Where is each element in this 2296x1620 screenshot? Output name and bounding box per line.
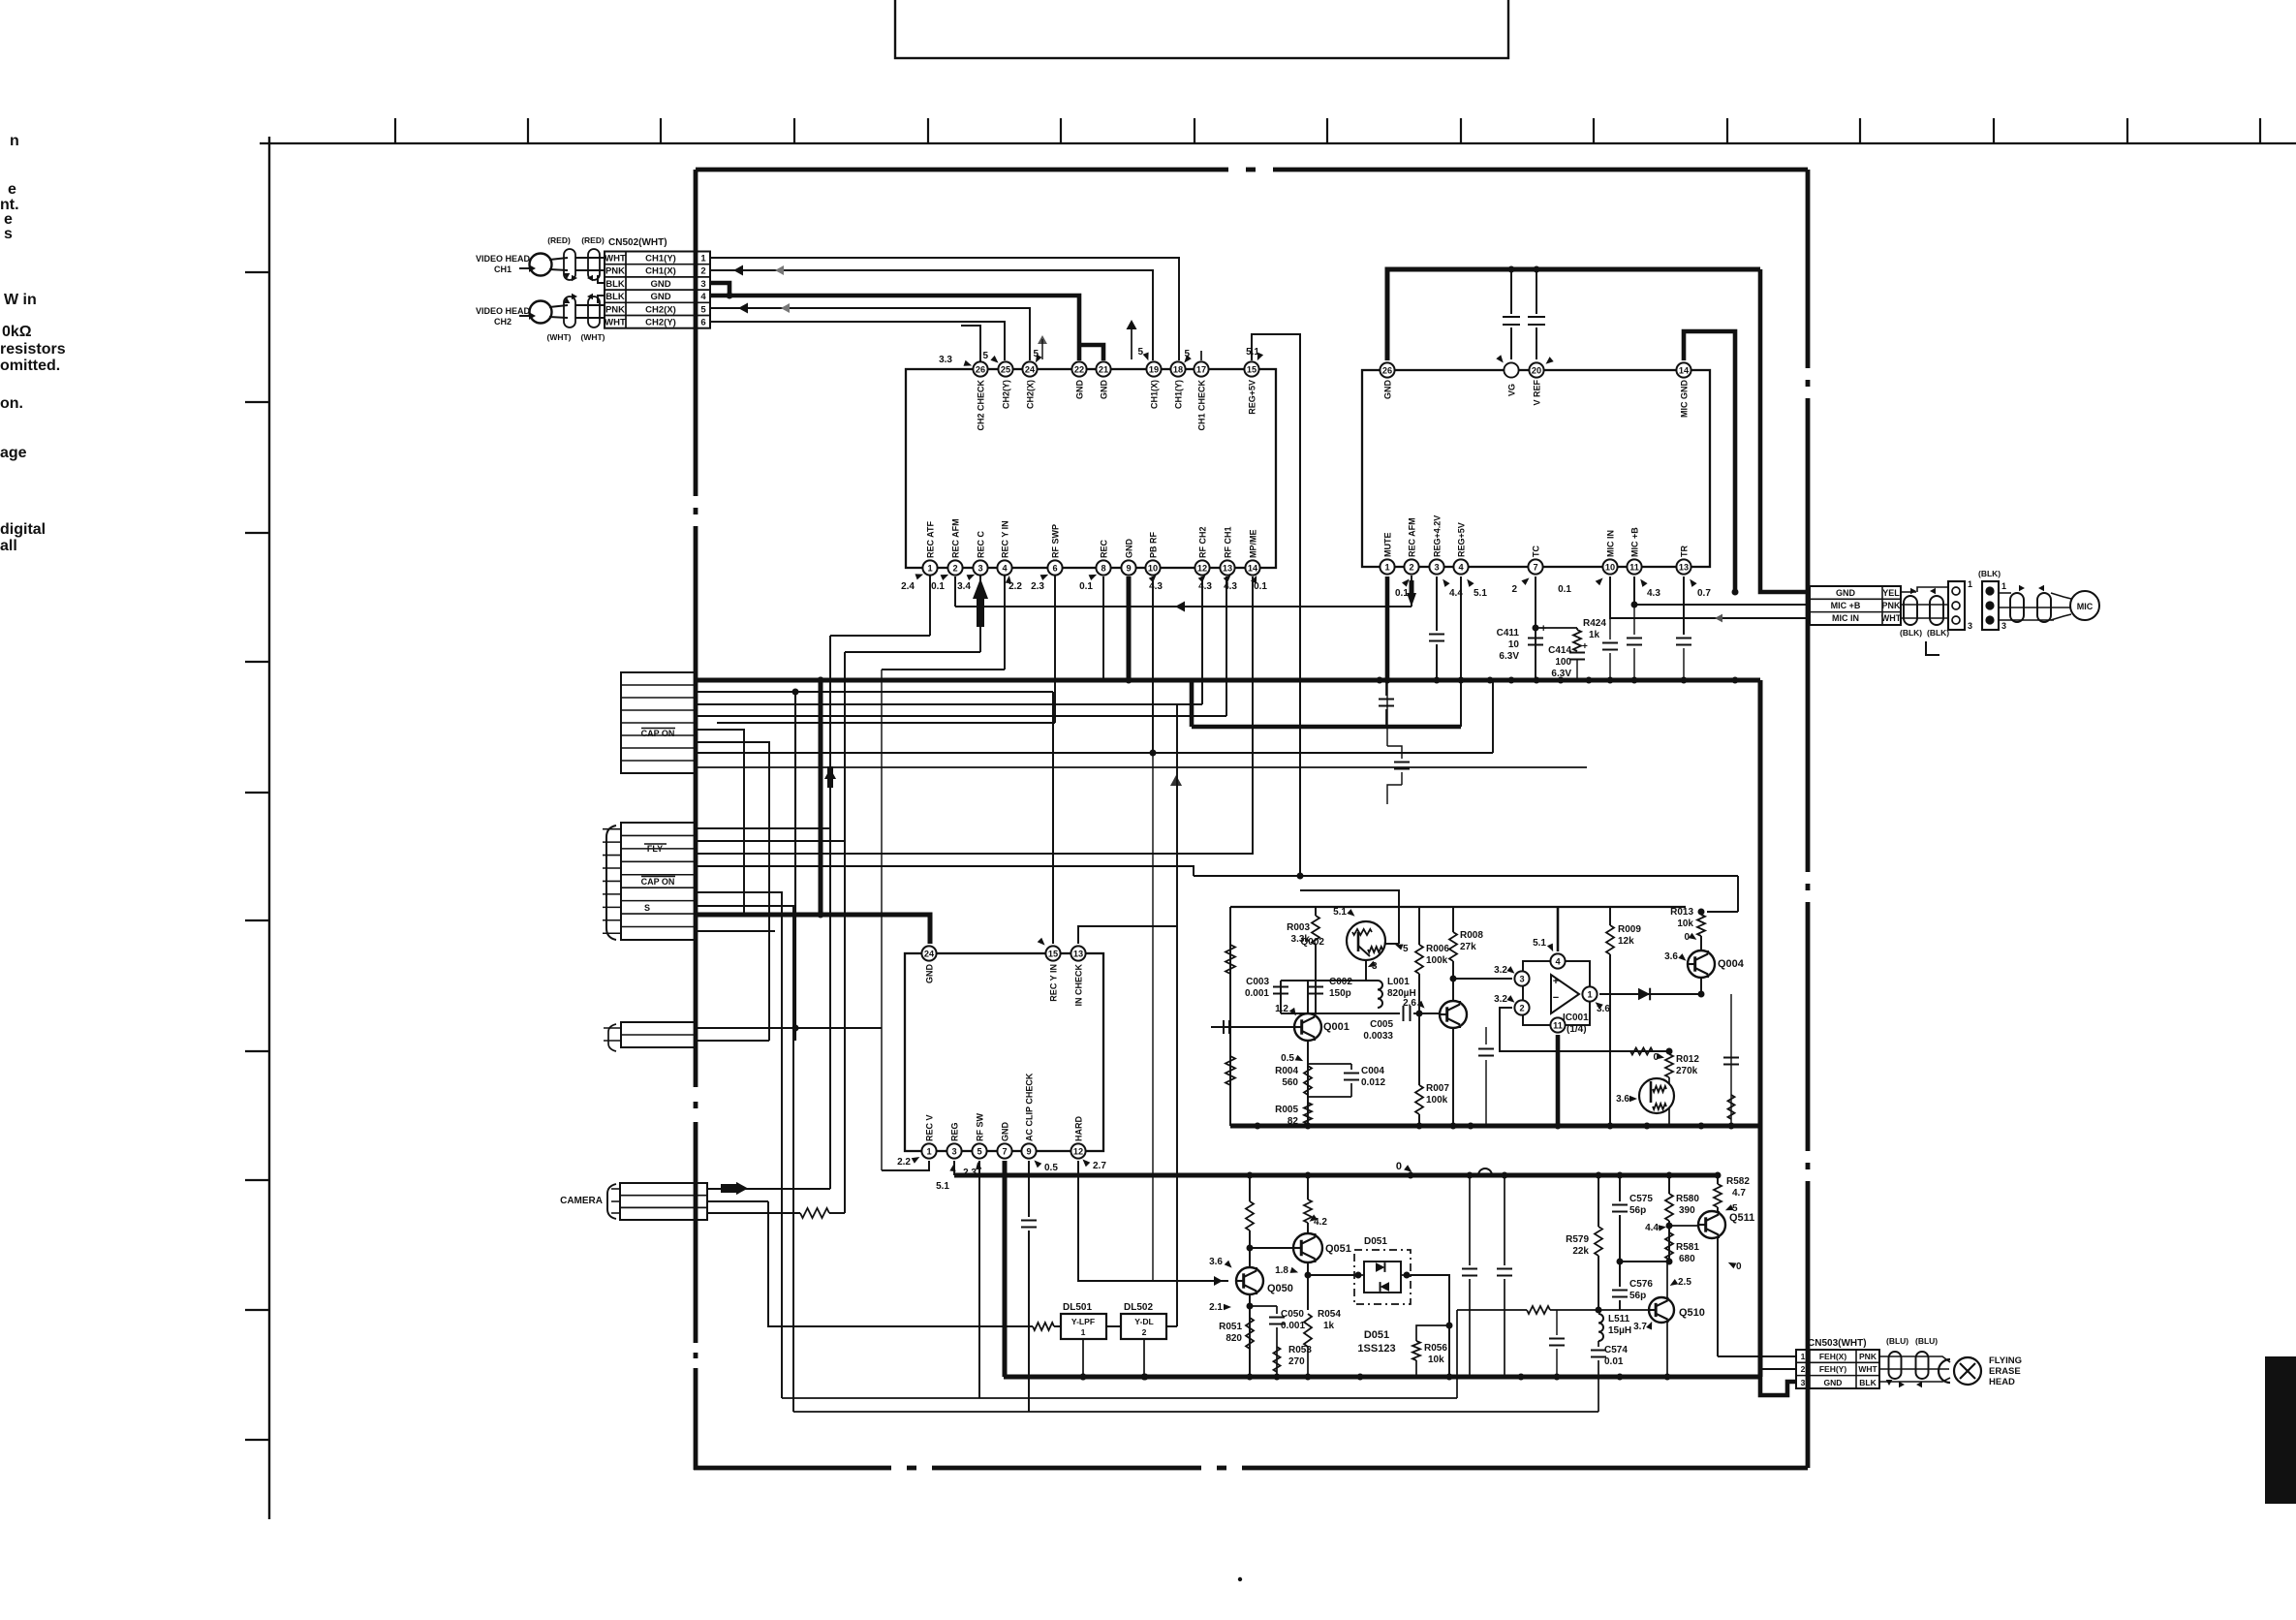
Q511 bbox=[1698, 1211, 1725, 1238]
svg-text:2.3: 2.3 bbox=[1031, 581, 1044, 592]
svg-text:age: age bbox=[0, 445, 27, 461]
up arrow on wire bbox=[824, 768, 836, 779]
svg-text:CAP ON: CAP ON bbox=[641, 729, 675, 738]
svg-text:WHT: WHT bbox=[605, 318, 626, 328]
IC3 pin 5 bbox=[972, 1143, 986, 1158]
svg-text:MIC: MIC bbox=[2077, 602, 2094, 611]
svg-text:1k: 1k bbox=[1323, 1321, 1335, 1331]
IC3 pin1 wire bbox=[882, 1161, 929, 1170]
svg-text:10: 10 bbox=[1148, 563, 1158, 573]
svg-text:1: 1 bbox=[927, 563, 932, 573]
svg-text:1: 1 bbox=[1384, 562, 1389, 572]
IC2 pin3 drop with cap bbox=[1436, 576, 1438, 631]
IC1 pin 25 bbox=[998, 361, 1012, 376]
REG rail thick bbox=[954, 1173, 1718, 1178]
IC2 pin7 chain C411 R424 bbox=[1535, 576, 1536, 680]
svg-text:Q004: Q004 bbox=[1718, 958, 1745, 970]
svg-text:FLY: FLY bbox=[647, 844, 663, 854]
svg-text:3: 3 bbox=[2001, 621, 2006, 631]
svg-text:omitted.: omitted. bbox=[0, 358, 60, 374]
thick drop to MIC table bbox=[1760, 269, 1810, 592]
svg-text:CH2 CHECK: CH2 CHECK bbox=[977, 380, 986, 431]
svg-text:5.1: 5.1 bbox=[1333, 907, 1347, 918]
svg-text:GND: GND bbox=[1075, 380, 1085, 400]
svg-text:RF CH1: RF CH1 bbox=[1224, 526, 1233, 558]
svg-text:(BLK): (BLK) bbox=[1900, 628, 1922, 638]
svg-text:FEH(X): FEH(X) bbox=[1819, 1352, 1847, 1361]
board border bottom bbox=[694, 1466, 891, 1471]
svg-text:6: 6 bbox=[1052, 563, 1057, 573]
IC1 pin 1 bbox=[922, 560, 937, 575]
svg-text:4: 4 bbox=[700, 292, 706, 302]
svg-text:0: 0 bbox=[1736, 1262, 1742, 1272]
svg-text:GND: GND bbox=[1125, 539, 1134, 559]
long return line B bbox=[793, 1411, 1598, 1413]
svg-text:REC: REC bbox=[1100, 539, 1109, 558]
analog top rail bbox=[1230, 906, 1686, 908]
IC1 pin 9 bbox=[1121, 560, 1135, 575]
svg-text:BLK: BLK bbox=[1859, 1378, 1877, 1387]
IC1 pin 26 bbox=[973, 361, 987, 376]
transistor Q050 bbox=[1236, 1267, 1263, 1294]
board border top bbox=[696, 168, 1228, 172]
svg-text:4.3: 4.3 bbox=[1198, 581, 1212, 592]
svg-text:4: 4 bbox=[1458, 562, 1464, 572]
bottom GND rail thick bbox=[1004, 1375, 1760, 1380]
svg-text:1k: 1k bbox=[1589, 630, 1600, 640]
IC1 pin2 drop bbox=[954, 576, 956, 607]
svg-text:C576: C576 bbox=[1629, 1279, 1653, 1290]
svg-text:0.001: 0.001 bbox=[1245, 988, 1269, 999]
svg-text:6.3V: 6.3V bbox=[1499, 651, 1519, 662]
top ruler line bbox=[260, 142, 2296, 144]
svg-text:2: 2 bbox=[1409, 562, 1413, 572]
svg-text:3.2: 3.2 bbox=[1494, 994, 1507, 1005]
signal arrow above pin19 bbox=[1127, 320, 1137, 329]
cap rail to subrail bbox=[1385, 680, 1387, 696]
wire long row8 bbox=[696, 766, 1587, 768]
svg-text:REG: REG bbox=[950, 1122, 960, 1141]
Q050 collector node to Q051 base bbox=[1247, 1245, 1254, 1252]
svg-text:82: 82 bbox=[1288, 1116, 1299, 1127]
connector 3pin open bbox=[1948, 581, 1965, 630]
svg-text:REC ATF: REC ATF bbox=[926, 521, 936, 558]
IC001 pin11 gnd thick bbox=[1556, 1035, 1561, 1126]
svg-text:0.1: 0.1 bbox=[931, 581, 945, 592]
svg-text:56p: 56p bbox=[1629, 1205, 1646, 1216]
IC1 pin 13 bbox=[1220, 560, 1234, 575]
signal arrow above pin24 bbox=[1038, 335, 1047, 344]
svg-text:GND: GND bbox=[650, 279, 670, 290]
left ruler ticks bbox=[245, 271, 269, 273]
svg-text:15: 15 bbox=[1247, 364, 1257, 374]
wire row CN to RF CH2 bbox=[696, 703, 1202, 705]
IC1 pin 24 bbox=[1022, 361, 1037, 376]
svg-text:FLYING: FLYING bbox=[1989, 1355, 2022, 1366]
IC2 pin 1 bbox=[1380, 559, 1394, 574]
svg-text:5.1: 5.1 bbox=[1474, 588, 1487, 599]
svg-text:C005: C005 bbox=[1370, 1019, 1393, 1030]
board border right bbox=[1806, 170, 1811, 368]
svg-text:1: 1 bbox=[1968, 579, 1972, 589]
long vertical x1190 lower bbox=[1152, 753, 1154, 1281]
svg-text:R579: R579 bbox=[1566, 1234, 1589, 1245]
Q510 base line bbox=[1598, 1309, 1649, 1311]
svg-text:VIDEO HEAD: VIDEO HEAD bbox=[476, 254, 531, 264]
wire PB RF pin10 bbox=[696, 752, 1493, 754]
svg-text:GND: GND bbox=[1001, 1122, 1010, 1142]
svg-text:3.4: 3.4 bbox=[957, 581, 971, 592]
svg-text:12k: 12k bbox=[1618, 936, 1634, 947]
svg-text:MIC +B: MIC +B bbox=[1831, 601, 1861, 610]
svg-text:CH2: CH2 bbox=[494, 317, 512, 327]
svg-text:CAMERA: CAMERA bbox=[560, 1196, 603, 1206]
right caps bbox=[1730, 994, 1732, 1126]
svg-text:C574: C574 bbox=[1604, 1345, 1628, 1355]
svg-text:GND: GND bbox=[650, 292, 670, 302]
IC1 pin 19 bbox=[1146, 361, 1161, 376]
D051 out bbox=[1411, 1275, 1449, 1377]
op-amp IC2 body bbox=[1362, 370, 1710, 567]
svg-text:10: 10 bbox=[1508, 639, 1520, 650]
svg-text:0.7: 0.7 bbox=[1697, 588, 1711, 599]
svg-text:19: 19 bbox=[1149, 364, 1159, 374]
transistor Q004 bbox=[1688, 950, 1715, 978]
IC001 feedback bbox=[1500, 1008, 1669, 1051]
IC2 pin 20 bbox=[1529, 362, 1543, 377]
connector small mid-left bbox=[621, 1022, 696, 1047]
svg-text:3: 3 bbox=[1519, 974, 1524, 983]
wire REC Y IN staircase bbox=[1004, 575, 1006, 670]
svg-text:S: S bbox=[644, 903, 650, 913]
rail caps bbox=[1469, 1175, 1471, 1265]
C414 cap bbox=[1569, 652, 1585, 654]
transistor Q005 bbox=[1639, 1078, 1674, 1113]
svg-text:BLK: BLK bbox=[605, 279, 625, 290]
svg-text:5.1: 5.1 bbox=[936, 1181, 949, 1192]
svg-text:0.5: 0.5 bbox=[1044, 1163, 1058, 1173]
svg-text:R424: R424 bbox=[1583, 618, 1606, 629]
analog bottom GND rail thick bbox=[1230, 1124, 1760, 1129]
svg-text:4.3: 4.3 bbox=[1647, 588, 1660, 599]
svg-text:PNK: PNK bbox=[1881, 601, 1901, 610]
svg-text:5: 5 bbox=[977, 1146, 981, 1156]
svg-text:CH1(X): CH1(X) bbox=[645, 266, 676, 277]
node 3 below Q002 bbox=[1365, 960, 1367, 981]
transistor Q001 bbox=[1294, 1013, 1321, 1041]
svg-text:2.7: 2.7 bbox=[1093, 1161, 1106, 1171]
IC2 pin VG bbox=[1504, 362, 1518, 377]
svg-text:10: 10 bbox=[1605, 562, 1615, 572]
svg-text:(BLK): (BLK) bbox=[1927, 628, 1949, 638]
svg-text:CN503(WHT): CN503(WHT) bbox=[1808, 1338, 1867, 1349]
svg-text:11: 11 bbox=[1553, 1020, 1563, 1030]
top ruler ticks bbox=[394, 118, 396, 143]
svg-text:VIDEO HEAD: VIDEO HEAD bbox=[476, 306, 531, 316]
svg-text:3.6: 3.6 bbox=[1209, 1257, 1223, 1267]
IC3 pin3 wire to +5 rail bbox=[953, 1161, 955, 1175]
svg-text:0.001: 0.001 bbox=[1281, 1321, 1305, 1331]
svg-text:GND: GND bbox=[1836, 588, 1856, 598]
svg-text:MP/ME: MP/ME bbox=[1249, 529, 1258, 558]
svg-text:3.2: 3.2 bbox=[1494, 965, 1507, 976]
svg-text:R582: R582 bbox=[1726, 1176, 1750, 1187]
L mark bbox=[1926, 641, 1939, 655]
svg-text:9: 9 bbox=[1126, 563, 1131, 573]
IC3 pin7 GND thick drop bbox=[1003, 1161, 1008, 1377]
svg-text:C003: C003 bbox=[1246, 977, 1269, 987]
IC2 pin 14 bbox=[1676, 362, 1691, 377]
svg-text:2: 2 bbox=[1511, 584, 1517, 595]
svg-text:1: 1 bbox=[926, 1146, 931, 1156]
bracket lower connector bbox=[606, 826, 616, 940]
svg-text:C414: C414 bbox=[1548, 645, 1571, 656]
IC1 pin 3 bbox=[973, 560, 987, 575]
svg-text:22k: 22k bbox=[1572, 1246, 1589, 1257]
svg-text:Q051: Q051 bbox=[1325, 1243, 1351, 1255]
svg-text:GND: GND bbox=[1100, 380, 1109, 400]
IC2 pin1 MUTE thick drop bbox=[1385, 576, 1390, 680]
DL stubs to gnd bbox=[1082, 1339, 1084, 1377]
IC2 pin11 MIC+B bbox=[1634, 576, 1810, 605]
stray dot bbox=[1238, 1577, 1242, 1581]
svg-text:1: 1 bbox=[2001, 581, 2006, 591]
transistor Q003 bbox=[1440, 1001, 1467, 1028]
svg-text:REC AFM: REC AFM bbox=[1408, 517, 1417, 557]
svg-text:390: 390 bbox=[1679, 1205, 1695, 1216]
IC3 pin 24 bbox=[921, 946, 936, 960]
svg-text:14: 14 bbox=[1248, 563, 1258, 573]
svg-text:Y-LPF: Y-LPF bbox=[1071, 1317, 1095, 1326]
svg-text:1: 1 bbox=[1081, 1327, 1086, 1337]
thick wire to IC3 pin24 bbox=[696, 915, 930, 944]
IC2 pin 10 bbox=[1602, 559, 1617, 574]
connector block lower bbox=[621, 823, 696, 940]
svg-text:WHT: WHT bbox=[605, 254, 626, 265]
svg-text:REG+4.2V: REG+4.2V bbox=[1433, 515, 1443, 557]
svg-text:e: e bbox=[8, 181, 16, 198]
IC1 pin 22 bbox=[1071, 361, 1086, 376]
IC2 pin2 drop w arrow bbox=[1411, 576, 1412, 607]
feedback cap bbox=[1485, 1027, 1487, 1044]
svg-text:14: 14 bbox=[1679, 365, 1690, 375]
IC1 pin 4 bbox=[997, 560, 1011, 575]
IC2 pin 26 bbox=[1380, 362, 1394, 377]
svg-text:21: 21 bbox=[1099, 364, 1108, 374]
Q050 emitter chain bbox=[1249, 1295, 1251, 1377]
svg-text:CH1(Y): CH1(Y) bbox=[645, 254, 676, 265]
DL link bbox=[1106, 1325, 1121, 1327]
svg-text:ERASE: ERASE bbox=[1989, 1366, 2021, 1377]
wire CH2(X) pin5 bbox=[710, 308, 1030, 360]
wire CH1(Y) pin1 bbox=[710, 258, 1179, 360]
op-amp IC1 body bbox=[906, 369, 1276, 568]
svg-text:BLK: BLK bbox=[605, 292, 625, 302]
svg-text:820: 820 bbox=[1226, 1333, 1242, 1344]
svg-text:5: 5 bbox=[982, 351, 988, 361]
IC3 pin 7 bbox=[997, 1143, 1011, 1158]
long return line A bbox=[782, 1397, 1457, 1399]
svg-text:R006: R006 bbox=[1426, 944, 1449, 954]
svg-text:10k: 10k bbox=[1677, 919, 1693, 929]
svg-text:REC Y IN: REC Y IN bbox=[1001, 520, 1010, 558]
flying erase head bbox=[1939, 1359, 1950, 1383]
IC2 pin11 cap bbox=[1633, 605, 1635, 635]
svg-text:15: 15 bbox=[1048, 949, 1058, 958]
analog block connects rail right bbox=[1758, 680, 1763, 1377]
svg-text:REG+5V: REG+5V bbox=[1248, 380, 1257, 415]
svg-text:3: 3 bbox=[951, 1146, 956, 1156]
svg-text:IC001: IC001 bbox=[1563, 1012, 1589, 1023]
svg-text:1: 1 bbox=[1801, 1352, 1806, 1361]
svg-text:CH1: CH1 bbox=[494, 265, 512, 274]
svg-text:CN502(WHT): CN502(WHT) bbox=[608, 237, 667, 248]
svg-text:REC Y IN: REC Y IN bbox=[1049, 964, 1059, 1002]
Q510 collector/emitter bbox=[1666, 1262, 1668, 1298]
svg-text:1: 1 bbox=[700, 254, 706, 265]
svg-text:MUTE: MUTE bbox=[1383, 533, 1393, 558]
svg-text:680: 680 bbox=[1679, 1254, 1695, 1264]
svg-text:MIC GND: MIC GND bbox=[1680, 380, 1690, 418]
IC2 pin10 MIC IN bbox=[1610, 576, 1810, 618]
svg-text:5: 5 bbox=[1403, 944, 1409, 954]
svg-text:100: 100 bbox=[1555, 657, 1571, 668]
svg-text:15µH: 15µH bbox=[1608, 1325, 1631, 1336]
svg-text:IN CHECK: IN CHECK bbox=[1074, 964, 1084, 1007]
svg-text:20: 20 bbox=[1532, 365, 1541, 375]
CN503 wires bbox=[1718, 1355, 1796, 1357]
camera to DL501 path bbox=[768, 1201, 1033, 1326]
svg-text:17: 17 bbox=[1196, 364, 1206, 374]
svg-text:REC V: REC V bbox=[925, 1114, 935, 1141]
IC1 pin9 GND thick drop bbox=[1127, 576, 1132, 680]
IC2 pin 2 bbox=[1404, 559, 1418, 574]
svg-text:R008: R008 bbox=[1460, 930, 1483, 941]
wire REC ATF staircase bbox=[929, 575, 931, 636]
svg-text:Q001: Q001 bbox=[1323, 1021, 1350, 1033]
Q050 collector resistor bbox=[1249, 1175, 1251, 1201]
svg-text:1.8: 1.8 bbox=[1275, 1265, 1288, 1276]
svg-text:PNK: PNK bbox=[1859, 1352, 1877, 1361]
svg-text:2.4: 2.4 bbox=[901, 581, 915, 592]
thick branch vertical bbox=[819, 680, 823, 915]
CN502 BLK elbow row4 bbox=[598, 296, 605, 303]
svg-text:13: 13 bbox=[1679, 562, 1689, 572]
left column resistors bbox=[1229, 907, 1231, 1126]
harness coils bbox=[1904, 596, 1917, 625]
svg-text:CH1(Y): CH1(Y) bbox=[1174, 380, 1184, 409]
svg-text:18: 18 bbox=[1173, 364, 1183, 374]
svg-text:VG: VG bbox=[1507, 384, 1517, 396]
svg-text:560: 560 bbox=[1282, 1077, 1298, 1088]
svg-text:+: + bbox=[1540, 623, 1546, 635]
svg-text:3: 3 bbox=[977, 563, 982, 573]
svg-text:5.1: 5.1 bbox=[1533, 938, 1546, 949]
svg-text:+: + bbox=[1582, 641, 1588, 652]
svg-text:R013: R013 bbox=[1670, 907, 1693, 918]
IC2 pin 11 bbox=[1627, 559, 1641, 574]
svg-text:7: 7 bbox=[1002, 1146, 1007, 1156]
IC001 pin4 supply bbox=[1557, 907, 1560, 951]
svg-text:CAP ON: CAP ON bbox=[641, 877, 675, 887]
svg-text:56p: 56p bbox=[1629, 1291, 1646, 1301]
svg-text:1SS123: 1SS123 bbox=[1357, 1343, 1395, 1355]
IC1 pin 15 bbox=[1244, 361, 1258, 376]
svg-text:100k: 100k bbox=[1426, 1095, 1448, 1106]
Q051 emitter node bbox=[1307, 1262, 1309, 1310]
mic coils bbox=[2010, 593, 2024, 622]
wire pin15 REG+5V up-over bbox=[1252, 334, 1300, 876]
coil bump on rail bbox=[1478, 1168, 1492, 1175]
op-amp IC001 bbox=[1523, 961, 1590, 1025]
svg-text:C411: C411 bbox=[1497, 628, 1520, 639]
IC3 pin13 wire bbox=[1078, 926, 1177, 944]
svg-text:s: s bbox=[4, 226, 13, 242]
svg-text:L001: L001 bbox=[1387, 977, 1410, 987]
svg-text:R051: R051 bbox=[1219, 1322, 1242, 1332]
svg-text:2.2: 2.2 bbox=[897, 1157, 911, 1168]
svg-text:4.3: 4.3 bbox=[1149, 581, 1163, 592]
camera row3 wire with resistor bbox=[707, 1212, 800, 1214]
Q510 bbox=[1649, 1297, 1674, 1323]
svg-text:2: 2 bbox=[1519, 1003, 1524, 1012]
svg-text:2: 2 bbox=[700, 266, 705, 277]
svg-text:C575: C575 bbox=[1629, 1194, 1653, 1204]
svg-text:D051: D051 bbox=[1364, 1329, 1389, 1341]
svg-text:5: 5 bbox=[1732, 1203, 1738, 1214]
svg-text:MIC IN: MIC IN bbox=[1606, 530, 1616, 557]
svg-text:RF CH2: RF CH2 bbox=[1198, 526, 1208, 558]
svg-text:2.1: 2.1 bbox=[1209, 1302, 1223, 1313]
svg-text:26: 26 bbox=[976, 364, 985, 374]
svg-text:8: 8 bbox=[1101, 563, 1105, 573]
page edge mark bbox=[2265, 1356, 2296, 1504]
wire Q003 collector node to IC001 pin3 bbox=[1453, 978, 1512, 980]
svg-text:R012: R012 bbox=[1676, 1054, 1699, 1065]
IC2 pin10 cap bbox=[1609, 618, 1611, 639]
base line resistor from left bbox=[1527, 1306, 1550, 1314]
IC3 pin12 drop to Q050 bbox=[1078, 1161, 1228, 1281]
svg-text:TR: TR bbox=[1680, 545, 1690, 557]
IC1 pin 10 bbox=[1145, 560, 1160, 575]
wire pin26 stub up bbox=[961, 326, 980, 362]
svg-text:0.5: 0.5 bbox=[1281, 1053, 1294, 1064]
wire GND pin4 thick bbox=[710, 296, 1079, 360]
svg-text:Q002: Q002 bbox=[1301, 937, 1325, 948]
svg-text:3.3: 3.3 bbox=[939, 355, 952, 365]
wire GND pin3 thick elbow bbox=[710, 283, 729, 296]
IC2 top GND bus thick bbox=[1387, 269, 1760, 360]
svg-text:R003: R003 bbox=[1287, 922, 1310, 933]
Q001 emitter chain bbox=[1307, 1041, 1309, 1126]
svg-text:R581: R581 bbox=[1676, 1242, 1699, 1253]
transistor Q002 bbox=[1347, 921, 1385, 960]
svg-text:n: n bbox=[10, 133, 19, 149]
svg-text:R004: R004 bbox=[1275, 1066, 1298, 1076]
cap at V REF bbox=[1536, 269, 1537, 314]
svg-text:PNK: PNK bbox=[605, 266, 625, 277]
svg-text:digital: digital bbox=[0, 521, 46, 538]
wire REC C staircase bbox=[979, 575, 981, 652]
svg-text:2: 2 bbox=[952, 563, 957, 573]
svg-text:(RED): (RED) bbox=[581, 235, 605, 245]
IC1 pin 18 bbox=[1170, 361, 1185, 376]
svg-text:3.6: 3.6 bbox=[1664, 951, 1678, 962]
IC3 pin15 wire up bbox=[1052, 692, 1054, 944]
svg-text:1: 1 bbox=[1587, 989, 1592, 999]
svg-text:0.1: 0.1 bbox=[1079, 581, 1093, 592]
svg-text:12: 12 bbox=[1197, 563, 1207, 573]
